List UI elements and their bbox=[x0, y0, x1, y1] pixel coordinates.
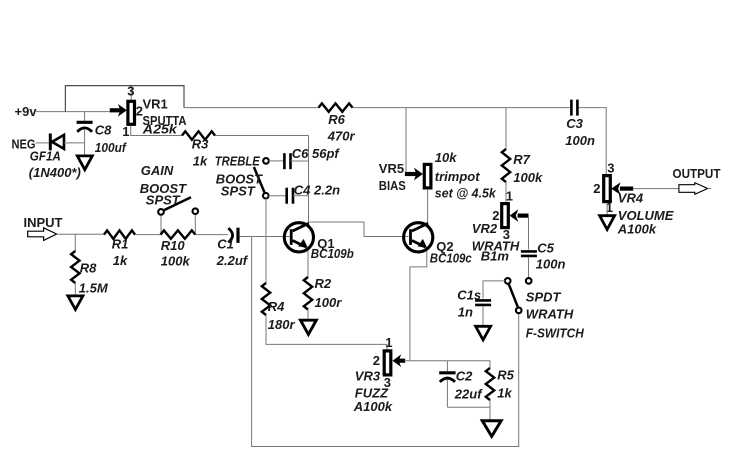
label VR4 bbox=[617, 191, 674, 237]
svg-text:BIAS: BIAS bbox=[379, 178, 406, 193]
wire feedback loop bbox=[252, 237, 519, 447]
capacitor C4 bbox=[287, 188, 293, 204]
ground below R2 bbox=[301, 320, 317, 334]
svg-text:OUTPUT: OUTPUT bbox=[673, 166, 721, 181]
pin 2 VR1 bbox=[136, 104, 143, 119]
svg-text:1k: 1k bbox=[113, 253, 128, 268]
resistor R6 bbox=[319, 103, 353, 111]
label VR5 value bbox=[435, 150, 497, 200]
svg-text:VR2: VR2 bbox=[472, 221, 498, 236]
svg-text:R1: R1 bbox=[112, 237, 129, 252]
label C1 bbox=[216, 237, 249, 269]
svg-text:180r: 180r bbox=[268, 317, 296, 332]
svg-text:R10: R10 bbox=[161, 238, 186, 253]
svg-text:B1m: B1m bbox=[481, 249, 510, 264]
resistor R5 bbox=[486, 361, 494, 421]
potentiometer VR4 bbox=[604, 176, 634, 202]
svg-text:C1: C1 bbox=[217, 237, 234, 252]
pin 1 VR2 bbox=[506, 189, 513, 204]
node OUTPUT bbox=[673, 166, 721, 181]
wire VR2 wiper to C5 bbox=[528, 216, 530, 250]
wire input to R1 bbox=[57, 233, 104, 235]
ground below VR4 bbox=[600, 216, 615, 230]
node INPUT bbox=[24, 215, 63, 230]
svg-text:C2: C2 bbox=[456, 368, 473, 383]
wire top rail from +9v up and right to step bbox=[65, 86, 184, 112]
wire treble upper to C6 bbox=[269, 160, 285, 162]
svg-text:R2: R2 bbox=[315, 276, 332, 291]
label VR2 bbox=[472, 221, 520, 264]
ground below C8 bbox=[77, 156, 92, 170]
svg-text:R3: R3 bbox=[192, 137, 209, 152]
svg-text:1.5M: 1.5M bbox=[79, 281, 109, 296]
capacitor C8 bbox=[77, 112, 93, 156]
svg-text:470r: 470r bbox=[327, 128, 356, 143]
svg-text:A25k: A25k bbox=[142, 121, 178, 136]
label R1 bbox=[112, 237, 129, 269]
input arrow bbox=[28, 228, 57, 241]
wire VR3 wiper row to R5 bbox=[405, 360, 491, 362]
label GF1A bbox=[29, 149, 81, 180]
trimpot VR5 bbox=[405, 108, 431, 224]
label TREBLE BOOST SPST bbox=[215, 154, 263, 199]
svg-text:SPST: SPST bbox=[221, 183, 256, 198]
svg-text:SPST: SPST bbox=[146, 192, 181, 207]
pin 3 VR2 bbox=[503, 227, 510, 242]
svg-text:R6: R6 bbox=[328, 112, 345, 127]
svg-text:1: 1 bbox=[385, 335, 392, 350]
wire Q2 emitter to VR3 wiper row bbox=[410, 251, 427, 361]
label C5 bbox=[536, 240, 566, 271]
resistor R1 bbox=[104, 230, 135, 238]
label Q1 bbox=[311, 236, 354, 261]
svg-text:WRATH: WRATH bbox=[526, 306, 574, 321]
node NEG bbox=[12, 136, 36, 151]
svg-text:BC109c: BC109c bbox=[430, 250, 473, 265]
svg-text:R8: R8 bbox=[80, 260, 97, 275]
label R6 bbox=[327, 112, 356, 143]
potentiometer VR3 bbox=[384, 351, 405, 375]
svg-text:GAIN: GAIN bbox=[141, 163, 174, 178]
pin 2 VR4 bbox=[593, 181, 600, 196]
label C4 bbox=[294, 182, 340, 197]
capacitor C1s bbox=[475, 300, 491, 305]
svg-text:10k: 10k bbox=[435, 150, 457, 165]
node +9v bbox=[15, 104, 38, 119]
wire C6 to collector riser bbox=[291, 160, 309, 162]
label R10 bbox=[161, 238, 191, 269]
svg-text:100n: 100n bbox=[536, 256, 566, 271]
transistor Q2 bbox=[404, 223, 433, 252]
svg-text:1n: 1n bbox=[458, 304, 473, 319]
wire C2 R5 bottom bbox=[447, 406, 490, 408]
label SPDT WRATH F-SWITCH bbox=[526, 289, 585, 340]
resistor R7 bbox=[502, 108, 510, 202]
wire rail2 C3 to VR4 pin3 bbox=[577, 108, 606, 174]
label Q2 bbox=[430, 239, 473, 265]
wire treble lower to R4 bbox=[265, 198, 267, 283]
switch SPDT WRATH F-SWITCH bbox=[505, 278, 532, 313]
resistor R2 bbox=[304, 277, 312, 310]
svg-text:BC109b: BC109b bbox=[311, 246, 354, 261]
wire Q1 emitter to R2 bbox=[307, 251, 309, 278]
svg-text:(1N400*): (1N400*) bbox=[29, 165, 81, 180]
capacitor C3 bbox=[571, 100, 577, 116]
label R7 bbox=[513, 152, 543, 185]
label VR1 bbox=[142, 96, 187, 136]
label C8 value bbox=[95, 122, 128, 155]
svg-text:2: 2 bbox=[593, 181, 600, 196]
svg-text:C4 2.2n: C4 2.2n bbox=[294, 182, 340, 197]
svg-text:R5: R5 bbox=[497, 367, 514, 382]
svg-text:TREBLE: TREBLE bbox=[215, 154, 260, 169]
wire collector riser bbox=[308, 136, 310, 224]
svg-text:2.2uf: 2.2uf bbox=[216, 253, 249, 268]
wire diode to C8 node bbox=[64, 142, 85, 144]
wire NEG to diode bbox=[36, 142, 49, 144]
svg-text:100k: 100k bbox=[161, 254, 191, 269]
wire C5 to SPDT right terminal bbox=[528, 257, 530, 278]
svg-text:1k: 1k bbox=[193, 154, 208, 169]
ground below R5 bbox=[482, 421, 501, 437]
wire rail2 step to R6 bbox=[184, 107, 319, 109]
resistor R8 bbox=[71, 235, 79, 296]
svg-text:set @ 4.5k: set @ 4.5k bbox=[435, 185, 497, 200]
wire treble lower to C4 bbox=[268, 195, 286, 197]
svg-text:VR4: VR4 bbox=[618, 191, 644, 206]
transistor Q1 bbox=[284, 223, 313, 252]
wire C1 to Q1 base bbox=[240, 236, 290, 238]
capacitor C5 bbox=[521, 251, 537, 256]
resistor R4 bbox=[262, 283, 270, 315]
label R8 bbox=[79, 260, 109, 295]
resistor R3 bbox=[182, 131, 215, 139]
pin 1 VR4 bbox=[606, 200, 613, 215]
label R4 bbox=[268, 299, 296, 332]
svg-text:F-SWITCH: F-SWITCH bbox=[526, 325, 585, 340]
potentiometer VR2 bbox=[502, 204, 529, 228]
svg-text:100n: 100n bbox=[565, 133, 595, 148]
svg-text:22uf: 22uf bbox=[454, 386, 483, 401]
label VR3 bbox=[353, 368, 393, 414]
svg-text:+9v: +9v bbox=[15, 104, 38, 119]
wire Q1 collector to Q2 base bbox=[309, 222, 409, 237]
potentiometer VR1 bbox=[110, 86, 135, 125]
label C2 bbox=[454, 368, 483, 401]
wire C1s to ground bbox=[482, 307, 484, 327]
pin 3 VR4 bbox=[607, 160, 614, 175]
pin 2 VR2 bbox=[492, 208, 499, 223]
ground below C1s bbox=[476, 326, 491, 340]
svg-text:A100k: A100k bbox=[617, 221, 657, 236]
pin 1 VR3 bbox=[385, 335, 392, 350]
svg-text:C6 56pf: C6 56pf bbox=[292, 146, 341, 161]
capacitor C1 bbox=[228, 228, 238, 243]
wire VR4 pin1 to ground bbox=[606, 203, 608, 216]
svg-text:100uf: 100uf bbox=[95, 140, 128, 155]
svg-text:A100k: A100k bbox=[353, 399, 393, 414]
wire rail2 R6 to C3 bbox=[353, 107, 572, 109]
label C3 bbox=[565, 116, 595, 148]
resistor R10 bbox=[161, 230, 196, 238]
label C1s bbox=[457, 287, 481, 319]
svg-text:R7: R7 bbox=[513, 152, 530, 167]
wire R10 to C1 bbox=[195, 234, 228, 236]
label VR5 BIAS bbox=[379, 161, 406, 193]
svg-text:1: 1 bbox=[506, 189, 513, 204]
pin 3 VR3 bbox=[384, 375, 391, 390]
wire R1 to R10 bbox=[135, 234, 161, 236]
svg-text:R4: R4 bbox=[268, 299, 285, 314]
svg-text:3: 3 bbox=[607, 160, 614, 175]
capacitor C6 bbox=[284, 153, 290, 169]
label R3 bbox=[192, 137, 209, 169]
wire R3 to Q1 collector node bbox=[215, 135, 309, 137]
svg-text:C3: C3 bbox=[566, 116, 583, 131]
svg-text:100r: 100r bbox=[315, 295, 343, 310]
svg-text:GF1A: GF1A bbox=[30, 149, 61, 164]
label GAIN BOOST SPST bbox=[140, 163, 187, 207]
output arrow bbox=[679, 183, 711, 195]
pin 2 VR3 bbox=[373, 353, 380, 368]
svg-text:1k: 1k bbox=[497, 385, 512, 400]
wire +9v rail to VR1 wiper bbox=[36, 111, 111, 113]
diode GF1A bbox=[50, 134, 64, 151]
wire VR1 pin1 to R3 bbox=[131, 126, 182, 136]
svg-text:100k: 100k bbox=[513, 170, 543, 185]
wire R2 to ground bbox=[307, 310, 309, 321]
svg-text:VR1: VR1 bbox=[143, 96, 168, 111]
label C6 bbox=[292, 146, 341, 161]
svg-text:2: 2 bbox=[373, 353, 380, 368]
pin 3 VR1 bbox=[127, 83, 134, 98]
wire C4 to collector riser bbox=[293, 195, 309, 197]
label R2 bbox=[315, 276, 343, 310]
svg-text:SPDT: SPDT bbox=[526, 289, 562, 304]
wire R4 to VR3 pin1 bbox=[266, 315, 387, 349]
svg-text:C5: C5 bbox=[537, 240, 554, 255]
svg-text:VR5: VR5 bbox=[379, 161, 404, 176]
svg-text:3: 3 bbox=[127, 83, 134, 98]
switch TREBLE BOOST SPST bbox=[254, 158, 269, 198]
svg-text:C1s: C1s bbox=[457, 287, 481, 302]
capacitor C2 bbox=[439, 361, 455, 408]
label R5 bbox=[497, 367, 514, 400]
ground below R8 bbox=[68, 296, 83, 310]
switch GAIN BOOST SPST bbox=[158, 197, 198, 234]
svg-text:C8: C8 bbox=[95, 122, 112, 137]
svg-text:trimpot: trimpot bbox=[435, 169, 480, 184]
svg-text:1: 1 bbox=[122, 124, 129, 139]
pin 1 VR1 bbox=[122, 124, 129, 139]
wire VR4 wiper to output bbox=[633, 188, 679, 190]
wire SPDT left terminal to C1s bbox=[483, 281, 505, 299]
svg-text:VR3: VR3 bbox=[355, 368, 381, 383]
